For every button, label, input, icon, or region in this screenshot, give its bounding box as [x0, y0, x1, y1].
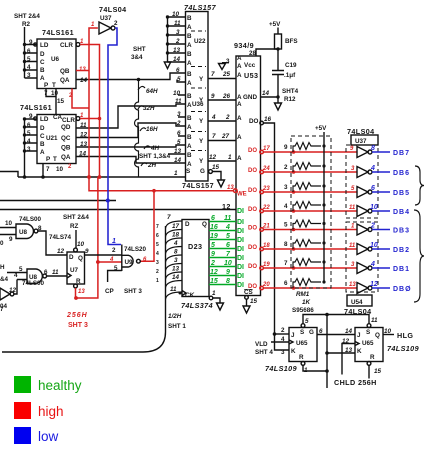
- flip-flop U7 74LS74: [67, 248, 85, 288]
- svg-text:B: B: [40, 67, 45, 74]
- U53 A input letters: [237, 55, 242, 162]
- svg-text:9: 9: [85, 248, 89, 255]
- svg-text:12: 12: [370, 281, 378, 288]
- svg-text:Vcc: Vcc: [244, 62, 256, 69]
- svg-text:2: 2: [210, 260, 215, 267]
- svg-text:Y: Y: [199, 76, 204, 83]
- wire U21 QC to mux pin 2 (16H): [76, 123, 186, 138]
- svg-text:14: 14: [174, 157, 182, 164]
- svg-text:3&4: 3&4: [131, 54, 143, 61]
- svg-text:5: 5: [177, 76, 181, 83]
- svg-text:14: 14: [262, 90, 270, 97]
- svg-text:SHT 2&4: SHT 2&4: [14, 13, 40, 20]
- svg-text:9: 9: [226, 269, 230, 276]
- svg-text:U65: U65: [296, 340, 308, 347]
- svg-text:G: G: [200, 168, 205, 175]
- svg-text:DI: DI: [237, 228, 244, 235]
- svg-text:QD: QD: [61, 124, 71, 131]
- svg-text:S: S: [366, 329, 370, 336]
- svg-text:74LS74: 74LS74: [49, 234, 72, 241]
- blue DB labels DB7..DB0: [393, 150, 412, 293]
- svg-text:10: 10: [172, 11, 180, 18]
- svg-text:18: 18: [263, 243, 270, 249]
- svg-text:11: 11: [170, 286, 177, 293]
- svg-text:WE: WE: [237, 192, 247, 198]
- svg-text:5: 5: [211, 242, 215, 249]
- svg-text:6: 6: [44, 269, 48, 276]
- U9 pin 5 stub to CP SHT 3: [105, 265, 142, 295]
- svg-text:.1μf: .1μf: [284, 72, 296, 79]
- wire black line y201 to blue junction: [0, 200, 116, 202]
- svg-text:19: 19: [263, 262, 270, 268]
- 16H label: [140, 126, 158, 133]
- svg-text:74LS157: 74LS157: [182, 181, 214, 190]
- svg-text:3: 3: [27, 146, 31, 153]
- svg-text:1: 1: [91, 22, 95, 28]
- svg-text:9: 9: [284, 144, 288, 151]
- red DO labels inside U53: [248, 148, 257, 290]
- legend healthy swatch: [14, 376, 31, 393]
- svg-text:2: 2: [370, 223, 375, 230]
- bottom-left inverter 74LS04 fragment: [0, 280, 17, 314]
- red U9 output wire up to WE line: [140, 191, 154, 262]
- svg-text:A: A: [187, 80, 192, 87]
- resistor BFS: [275, 34, 298, 49]
- svg-text:HLG: HLG: [397, 331, 413, 340]
- +5V rail for RM1: [315, 125, 327, 284]
- svg-text:74LS00: 74LS00: [22, 280, 45, 287]
- svg-text:74LS157: 74LS157: [184, 3, 217, 12]
- svg-text:4: 4: [284, 203, 288, 210]
- svg-text:17: 17: [172, 223, 180, 230]
- mux second-section input stubs: [173, 67, 186, 164]
- svg-text:U37: U37: [355, 138, 367, 145]
- U7 pin 9 Q output to U9: [85, 248, 122, 255]
- svg-text:8: 8: [284, 241, 288, 248]
- svg-text:0: 0: [0, 240, 4, 247]
- svg-text:2: 2: [176, 120, 181, 127]
- svg-text:R2: R2: [22, 21, 31, 28]
- svg-text:7: 7: [44, 90, 48, 97]
- svg-text:16: 16: [210, 224, 218, 231]
- U53 GND pin 14 wire: [261, 90, 280, 99]
- mux internal B/A letters: [187, 15, 192, 168]
- svg-text:2: 2: [225, 114, 230, 121]
- svg-text:DI: DI: [237, 219, 244, 226]
- svg-text:6: 6: [27, 122, 31, 129]
- svg-text:7: 7: [284, 260, 288, 267]
- svg-text:U21: U21: [46, 135, 58, 142]
- svg-text:2H: 2H: [147, 162, 157, 169]
- svg-text:D: D: [40, 51, 45, 58]
- svg-text:Y: Y: [199, 158, 204, 165]
- svg-text:D: D: [185, 221, 190, 228]
- svg-text:U22: U22: [194, 38, 206, 45]
- green D23 output pin numbers: [210, 215, 218, 285]
- svg-text:14: 14: [345, 328, 353, 335]
- svg-text:19: 19: [210, 233, 218, 240]
- 64H branch bundle vertical with crossover hops: [135, 78, 141, 177]
- green U53 DI pin numbers: [224, 215, 232, 285]
- inverter pack U37 74LS04 labels: [347, 127, 378, 145]
- U6 bottom pins 7 10: [44, 89, 59, 115]
- D23 pin 1 output-enable to ground: [209, 290, 223, 310]
- wire U21 QA to mux pin 14 (2H): [76, 157, 186, 164]
- 64H label: [138, 86, 158, 95]
- svg-text:10: 10: [384, 328, 392, 335]
- U53 pin 28 stub to +5V rail: [249, 47, 280, 57]
- svg-text:7: 7: [167, 214, 171, 221]
- legend low swatch: [14, 427, 31, 444]
- svg-text:15: 15: [250, 298, 258, 305]
- svg-text:B: B: [187, 33, 192, 40]
- red net 256H: U6 QB to U37A input, down to WE row: [76, 22, 98, 177]
- svg-text:4: 4: [225, 224, 230, 231]
- svg-text:DI: DI: [237, 282, 244, 289]
- svg-text:SHT4: SHT4: [282, 88, 299, 95]
- S preset rail for U65a/U65b: [303, 313, 378, 324]
- svg-text:S: S: [186, 168, 190, 175]
- svg-text:Q: Q: [202, 221, 207, 228]
- svg-text:DI: DI: [237, 273, 244, 280]
- svg-text:DO: DO: [248, 226, 257, 232]
- svg-text:12: 12: [57, 248, 65, 255]
- svg-text:5: 5: [305, 318, 309, 325]
- svg-text:11: 11: [371, 317, 378, 324]
- svg-text:7: 7: [211, 71, 215, 78]
- red junctions on select line: [87, 175, 101, 179]
- svg-text:GND: GND: [243, 94, 257, 101]
- svg-text:13: 13: [174, 148, 182, 155]
- svg-text:DO: DO: [248, 207, 257, 213]
- svg-text:3: 3: [284, 184, 288, 191]
- svg-text:P: P: [46, 156, 50, 163]
- svg-text:10: 10: [56, 166, 64, 173]
- svg-text:3: 3: [156, 260, 159, 266]
- svg-text:7: 7: [212, 133, 216, 140]
- wire U8a inputs from left: [0, 220, 16, 243]
- mux Y outputs to U53 inputs: [199, 71, 236, 165]
- svg-text:15: 15: [57, 98, 65, 105]
- red net: U6 CLR / U21 CLR vertical: [80, 39, 101, 177]
- NAND U8b 74LS00: [22, 269, 48, 287]
- svg-text:5: 5: [177, 139, 181, 146]
- svg-text:QC: QC: [61, 135, 71, 142]
- U65b Q output pin 10 to HLG: [383, 328, 413, 340]
- svg-text:DI: DI: [237, 255, 244, 262]
- svg-text:12: 12: [210, 269, 218, 276]
- U65a J input wire from DO0: [273, 332, 289, 350]
- svg-text:Y: Y: [199, 138, 204, 145]
- svg-text:10: 10: [370, 242, 378, 249]
- RM1 pin number labels 9 2 3 4 5 8 7 6: [284, 144, 288, 287]
- svg-text:2: 2: [112, 247, 116, 254]
- svg-text:S95686: S95686: [292, 307, 314, 314]
- 32H label: [138, 105, 155, 112]
- svg-text:C: C: [40, 59, 45, 66]
- wire mux pin 1 select line from left edge: [0, 172, 186, 179]
- blue net: U37A output to U9 pin 2: [106, 28, 121, 245]
- NAND U9 74LS20: [122, 245, 147, 272]
- svg-text:1: 1: [174, 170, 178, 177]
- svg-text:16: 16: [264, 116, 272, 123]
- svg-text:13: 13: [173, 47, 181, 54]
- svg-text:T: T: [52, 82, 56, 89]
- svg-text:5: 5: [351, 186, 355, 192]
- RM1 pull-up resistors: [293, 143, 321, 289]
- svg-text:1/2H: 1/2H: [168, 313, 182, 320]
- svg-text:14: 14: [80, 77, 88, 84]
- svg-text:A: A: [187, 24, 192, 31]
- svg-text:9: 9: [211, 251, 215, 258]
- svg-text:1: 1: [212, 290, 216, 297]
- U53 CS pin 15 to ground at bottom: [243, 289, 258, 313]
- svg-text:3: 3: [177, 111, 181, 118]
- svg-text:11: 11: [349, 243, 356, 249]
- svg-text:DB3: DB3: [393, 228, 410, 235]
- red vertical 256H to U7/U9: [74, 177, 122, 300]
- svg-text:LD: LD: [40, 116, 49, 123]
- svg-text:74LS374: 74LS374: [181, 301, 213, 310]
- svg-text:DB6: DB6: [393, 170, 410, 177]
- svg-text:4: 4: [370, 165, 375, 172]
- inverter pack U54 dashed outline: [346, 222, 378, 292]
- svg-text:11: 11: [174, 20, 181, 27]
- red 256H SHT 3 label: [66, 312, 88, 329]
- counter U6 74LS161: [37, 28, 80, 89]
- svg-text:DB4: DB4: [393, 209, 410, 216]
- svg-text:4: 4: [211, 114, 216, 121]
- svg-text:5: 5: [284, 222, 288, 229]
- svg-text:DI: DI: [237, 208, 244, 215]
- svg-text:11: 11: [175, 98, 182, 105]
- wire black DI line y210.5 to U53 pin 12: [0, 209, 236, 211]
- svg-text:10: 10: [77, 241, 85, 248]
- svg-text:SHT 2&4: SHT 2&4: [63, 214, 89, 221]
- svg-text:A: A: [237, 155, 242, 162]
- mux bottom S G pins and pin 15 strobe with ground arrow: [186, 164, 225, 187]
- svg-text:74LS109: 74LS109: [387, 344, 419, 353]
- svg-text:32H: 32H: [143, 105, 155, 112]
- svg-text:26: 26: [222, 93, 231, 100]
- svg-text:DB5: DB5: [393, 190, 410, 197]
- svg-text:6: 6: [211, 215, 215, 222]
- U21 bottom pins 7 10: [25, 151, 64, 177]
- svg-text:8: 8: [226, 278, 230, 285]
- red wire U6 ENT pin down to 256H net: [72, 89, 89, 109]
- svg-text:U6: U6: [51, 56, 60, 63]
- svg-text:13: 13: [227, 185, 234, 191]
- svg-text:6: 6: [176, 67, 180, 74]
- svg-text:2: 2: [281, 327, 285, 334]
- svg-text:RZ: RZ: [70, 223, 79, 230]
- svg-text:Q: Q: [375, 332, 380, 339]
- svg-text:RM1: RM1: [296, 291, 310, 298]
- svg-text:3: 3: [226, 58, 230, 65]
- U7 pin 10 preset from RZ: [63, 214, 89, 248]
- svg-text:15: 15: [210, 278, 218, 285]
- svg-text:D: D: [40, 125, 45, 132]
- svg-text:5: 5: [156, 242, 159, 248]
- svg-text:15: 15: [374, 368, 382, 375]
- svg-text:R: R: [299, 354, 304, 361]
- ground arrow below C19 / R12 SHT4: [275, 88, 299, 110]
- svg-text:R12: R12: [284, 96, 296, 103]
- svg-text:256H: 256H: [66, 312, 88, 319]
- svg-text:5: 5: [19, 266, 23, 273]
- inverters U37/U54 triangles with bubbles: [357, 147, 372, 294]
- svg-text:2: 2: [114, 20, 118, 27]
- svg-text:3: 3: [174, 257, 178, 264]
- svg-text:23: 23: [262, 186, 270, 192]
- svg-text:3: 3: [351, 166, 355, 172]
- U37 dashed outline: [346, 145, 378, 218]
- U65b clock pin 12 from CHLD: [342, 338, 355, 375]
- brace DB6-DB5: [415, 166, 424, 205]
- 1/2H SHT 1 labels: [168, 313, 186, 330]
- svg-text:&4: &4: [0, 276, 9, 283]
- svg-text:U8: U8: [19, 229, 28, 236]
- svg-text:DI: DI: [237, 237, 244, 244]
- svg-text:SHT 3: SHT 3: [68, 322, 88, 329]
- U7 pin 13 clear red: [76, 288, 86, 298]
- svg-text:CP: CP: [105, 288, 114, 295]
- green DI wires D23 to U53: [209, 222, 236, 285]
- svg-text:10: 10: [173, 90, 181, 97]
- svg-text:74LS109: 74LS109: [265, 364, 297, 373]
- svg-text:U53: U53: [244, 71, 258, 80]
- svg-text:U7: U7: [70, 267, 79, 274]
- 4H label: [144, 145, 160, 152]
- svg-text:74LS161: 74LS161: [42, 28, 74, 37]
- svg-text:QA: QA: [60, 77, 70, 84]
- svg-text:13: 13: [172, 266, 180, 273]
- svg-text:A: A: [237, 94, 242, 101]
- inverter output pin numbers blue: [370, 145, 378, 288]
- svg-text:QA: QA: [61, 154, 71, 161]
- D23 input hooks from sheet-1 bundle: [166, 221, 183, 299]
- svg-text:DO: DO: [249, 118, 259, 125]
- SHT 3&4 label: [131, 46, 146, 61]
- svg-text:17: 17: [263, 146, 270, 152]
- U9 input pin labels 2 4: [109, 247, 116, 263]
- svg-text:4H: 4H: [150, 145, 160, 152]
- svg-text:DO: DO: [248, 148, 257, 154]
- svg-text:20: 20: [262, 282, 270, 288]
- svg-text:A: A: [237, 72, 242, 79]
- svg-text:4: 4: [109, 257, 114, 263]
- svg-text:24: 24: [262, 166, 270, 172]
- svg-text:S: S: [300, 329, 304, 336]
- svg-text:11: 11: [349, 205, 356, 211]
- wire U21 QD to mux pin 11 (32H): [76, 104, 186, 128]
- svg-text:A: A: [237, 63, 242, 70]
- svg-text:SHT 1: SHT 1: [168, 323, 186, 330]
- svg-text:A: A: [187, 60, 192, 67]
- svg-text:5: 5: [226, 233, 230, 240]
- svg-text:QB: QB: [60, 68, 70, 75]
- CHLD 256H clock net vertical: [325, 315, 329, 389]
- blue DB output wires: [372, 152, 390, 288]
- svg-text:11: 11: [224, 215, 231, 222]
- svg-text:B: B: [187, 93, 192, 100]
- svg-text:A: A: [40, 149, 45, 156]
- mux U22/U36 74LS157 box: [182, 3, 217, 190]
- svg-text:6: 6: [371, 185, 375, 192]
- svg-text:CS: CS: [244, 289, 253, 296]
- svg-text:12: 12: [9, 287, 17, 294]
- svg-text:4: 4: [156, 251, 159, 257]
- svg-text:DI: DI: [237, 246, 244, 253]
- svg-text:H: H: [0, 264, 5, 271]
- svg-text:A: A: [187, 102, 192, 109]
- svg-text:DO: DO: [248, 264, 257, 270]
- U65a Q to U65b J wire: [317, 328, 355, 335]
- brace DB4-DB0: [414, 210, 424, 302]
- resistor network RM1 dashed box: [291, 136, 331, 288]
- svg-text:SHT 1,3&4: SHT 1,3&4: [139, 153, 171, 160]
- J-K flip-flop U65a 74LS109: [265, 324, 317, 373]
- U6 input bus from R2 SHT 2&4: [14, 13, 40, 78]
- svg-text:12: 12: [222, 202, 231, 211]
- svg-text:5: 5: [27, 130, 31, 137]
- svg-text:U37: U37: [100, 15, 112, 22]
- svg-text:B: B: [187, 134, 192, 141]
- svg-text:9: 9: [9, 236, 13, 243]
- U22 input bus with junction dots and down arrow SHT 3&4: [164, 15, 170, 68]
- wire U21 QB to mux pin 5 (4H): [76, 145, 186, 147]
- svg-text:DB7: DB7: [393, 150, 410, 157]
- svg-text:U9: U9: [125, 259, 134, 266]
- svg-text:10: 10: [370, 204, 378, 211]
- svg-text:934/9: 934/9: [234, 41, 254, 50]
- inverter U37A 74LS04 top: [99, 5, 127, 34]
- svg-text:B: B: [187, 115, 192, 122]
- svg-text:1K: 1K: [302, 299, 311, 306]
- J-K flip-flop U65b 74LS109: [355, 324, 419, 366]
- svg-text:64H: 64H: [146, 88, 158, 95]
- U54 label box: [344, 295, 372, 316]
- U21 left pin labels 9 6 5 4 3: [27, 113, 33, 153]
- svg-text:healthy: healthy: [38, 378, 82, 393]
- svg-text:CLR: CLR: [60, 42, 73, 49]
- svg-text:R: R: [370, 354, 375, 361]
- svg-text:J: J: [291, 332, 295, 339]
- svg-text:DO: DO: [248, 168, 257, 174]
- svg-text:8: 8: [371, 145, 375, 152]
- SHT 1,3&4 label and mux pin 13 stub: [139, 153, 186, 160]
- svg-text:1: 1: [351, 224, 355, 230]
- svg-text:12: 12: [342, 338, 350, 345]
- NAND U8a 74LS00: [16, 216, 42, 239]
- svg-text:LD: LD: [40, 42, 49, 49]
- legend high swatch: [14, 402, 31, 419]
- red DO pin numbers 17 24 23 22 21 18 19 20: [262, 146, 270, 288]
- svg-text:12: 12: [209, 154, 217, 161]
- svg-text:74LS20: 74LS20: [124, 246, 147, 253]
- U65a pin labels: [281, 318, 323, 374]
- svg-text:C: C: [40, 133, 45, 140]
- svg-text:DO: DO: [248, 188, 257, 194]
- svg-text:18: 18: [172, 232, 180, 239]
- svg-text:QB: QB: [61, 145, 71, 152]
- mux internal dashed separators: [191, 31, 206, 151]
- svg-text:16H: 16H: [146, 126, 158, 133]
- svg-text:P: P: [44, 82, 48, 89]
- RAM U53 934/9: [234, 41, 261, 296]
- svg-text:B: B: [40, 141, 45, 148]
- svg-text:8: 8: [174, 249, 178, 256]
